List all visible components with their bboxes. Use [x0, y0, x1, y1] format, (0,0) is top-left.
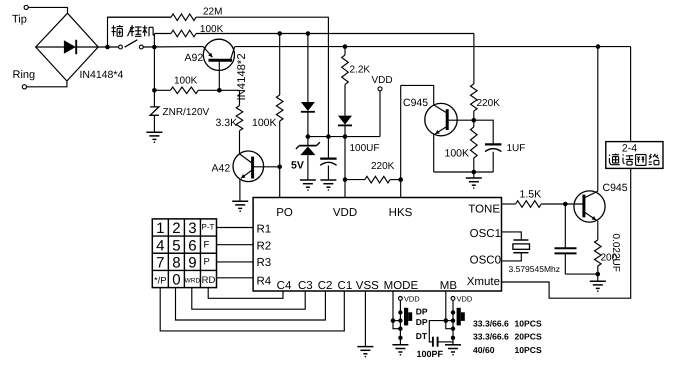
- svg-text:8: 8: [172, 254, 180, 271]
- MODE DIP switch: [391, 291, 421, 356]
- pin label VSS: [356, 280, 379, 292]
- svg-text:2: 2: [172, 220, 180, 237]
- pin label HKS: [389, 207, 413, 219]
- svg-text:1UF: 1UF: [507, 143, 526, 154]
- label DT: [416, 331, 428, 341]
- svg-text:40/60: 40/60: [473, 345, 495, 355]
- svg-text:VDD: VDD: [333, 207, 357, 219]
- diode D1: [301, 102, 315, 112]
- svg-text:HKS: HKS: [389, 207, 413, 219]
- pin label R4: [257, 276, 272, 288]
- resistor 22M: [108, 7, 329, 21]
- wire HKS pin column: [400, 85, 402, 197]
- node emitter rail: [472, 170, 477, 175]
- wire bridge to switch: [98, 46, 118, 48]
- resistor 3.3K: [216, 90, 243, 154]
- svg-text:DP: DP: [416, 317, 428, 327]
- pin label C1: [338, 280, 353, 292]
- node 100K junction a: [277, 31, 282, 36]
- varistor ZNR/120V: [150, 90, 209, 131]
- node HKS tee: [398, 177, 403, 182]
- svg-text:2.2K: 2.2K: [350, 65, 371, 76]
- svg-text:3.579545Mhz: 3.579545Mhz: [509, 264, 561, 274]
- svg-text:R1: R1: [257, 223, 272, 235]
- wire A92 collector to right: [235, 46, 631, 48]
- label DP 1: [416, 307, 428, 317]
- svg-text:OSC1: OSC1: [470, 228, 501, 240]
- terminal Ring: [13, 69, 36, 89]
- svg-text:5: 5: [172, 237, 180, 254]
- wire keypad col2 to C2: [176, 288, 326, 320]
- IC U1 box: [253, 198, 501, 292]
- network box 2-4: [606, 142, 663, 169]
- svg-text:P: P: [203, 257, 209, 268]
- node mid-left: [152, 88, 157, 93]
- wire D1 to node: [307, 112, 309, 137]
- node A92 base: [217, 88, 222, 93]
- ground 100UF: [320, 180, 336, 191]
- zener diode 5V: [291, 137, 320, 180]
- svg-text:100K: 100K: [252, 117, 277, 129]
- svg-text:7: 7: [156, 254, 164, 271]
- wire keypad col1 to C1: [160, 288, 344, 331]
- wire D2 to node: [344, 125, 346, 136]
- svg-text:Ring: Ring: [13, 69, 36, 81]
- svg-text:OSC0: OSC0: [470, 255, 501, 267]
- svg-text:5V: 5V: [291, 160, 304, 172]
- label DP 2: [416, 317, 428, 327]
- wire diode column: [307, 34, 309, 103]
- resistor 220K right: [471, 84, 501, 120]
- ground VSS: [357, 347, 373, 358]
- svg-text:VDD: VDD: [457, 295, 473, 304]
- svg-text:1.5K: 1.5K: [520, 189, 542, 201]
- keypad labels: [154, 220, 215, 289]
- node VDD-220K tee: [343, 177, 348, 182]
- resistor 1.5K: [502, 189, 566, 208]
- node C945-1 base: [472, 118, 477, 123]
- wire OSC1: [502, 232, 522, 240]
- pin label R2: [257, 240, 272, 252]
- svg-text:ZNR/120V: ZNR/120V: [163, 107, 210, 118]
- svg-text:220K: 220K: [477, 98, 501, 109]
- svg-text:A92: A92: [185, 52, 204, 64]
- svg-text:IN4148*2: IN4148*2: [236, 53, 248, 100]
- pin label OSC0: [470, 255, 501, 267]
- svg-text:1: 1: [156, 220, 164, 237]
- pin label MODE: [384, 280, 419, 292]
- wire keypad col3 to C3: [192, 288, 305, 310]
- wire OSC0: [502, 253, 522, 261]
- svg-text:C945: C945: [403, 97, 428, 109]
- wire R3: [217, 261, 254, 263]
- node switch right: [152, 45, 157, 50]
- label 0.022UF vertical: [610, 234, 621, 272]
- svg-text:C1: C1: [338, 280, 353, 292]
- wire 22M left riser: [108, 17, 172, 47]
- svg-text:RD: RD: [202, 275, 216, 286]
- node bridge output: [105, 45, 110, 50]
- wire base to C945-2: [565, 203, 582, 205]
- transistor A92: [185, 39, 235, 90]
- svg-text:VDD: VDD: [404, 295, 420, 304]
- table row1: [473, 319, 542, 329]
- svg-text:P-T: P-T: [201, 222, 214, 231]
- node tone cap: [563, 202, 568, 207]
- pin label C3: [298, 280, 313, 292]
- pin label VDD: [333, 207, 357, 219]
- svg-text:VDD: VDD: [372, 75, 393, 86]
- label IN4148*2 vertical: [236, 53, 248, 100]
- node 100K junction b: [306, 31, 311, 36]
- capacitor 0.022UF: [555, 204, 598, 274]
- wire left column riser: [153, 34, 155, 91]
- wire Xmute: [502, 168, 631, 298]
- svg-text:C945: C945: [603, 182, 628, 194]
- svg-text:PO: PO: [276, 207, 293, 219]
- pin label MB: [440, 280, 458, 292]
- svg-text:33.3/66.6: 33.3/66.6: [473, 332, 509, 342]
- svg-text:R3: R3: [257, 257, 272, 269]
- svg-text:DT: DT: [416, 331, 428, 341]
- svg-text:C3: C3: [298, 280, 313, 292]
- pin label Xmute: [467, 276, 500, 288]
- wire Tip to bridge: [28, 7, 67, 13]
- svg-text:TONE: TONE: [468, 204, 500, 216]
- svg-text:10PCS: 10PCS: [515, 345, 542, 355]
- transistor A42: [212, 151, 280, 201]
- keypad grid: [152, 219, 216, 288]
- MB DIP switch: [444, 291, 473, 356]
- table row3: [473, 345, 542, 355]
- pin label C4: [277, 280, 292, 292]
- svg-text:3: 3: [188, 220, 196, 237]
- svg-text:33.3/66.6: 33.3/66.6: [473, 319, 509, 329]
- pin label OSC1: [470, 228, 501, 240]
- svg-text:Tip: Tip: [12, 14, 27, 26]
- ground C945-2: [590, 274, 606, 292]
- node A42 base / PO line: [277, 165, 282, 170]
- node 100UF top: [326, 134, 331, 139]
- svg-text:F: F: [203, 239, 209, 250]
- wire PO pin: [279, 167, 281, 198]
- table row2: [473, 332, 542, 342]
- node 2.2K top: [343, 44, 348, 49]
- wire VDD node row: [308, 136, 380, 138]
- transistor C945 first: [403, 97, 474, 172]
- ground A42 emitter: [232, 201, 248, 212]
- hook switch 摘/挂机: [119, 40, 144, 49]
- terminal VDD: [372, 75, 393, 91]
- svg-text:R2: R2: [257, 240, 272, 252]
- wire R2: [217, 244, 254, 246]
- crystal 3.579545Mhz: [509, 240, 561, 274]
- svg-text:C4: C4: [277, 280, 292, 292]
- ground ZNR: [146, 132, 162, 143]
- svg-text:Xmute: Xmute: [467, 276, 500, 288]
- wire C945-1 collector top: [401, 85, 434, 105]
- wire right rail top: [630, 47, 632, 142]
- svg-text:DP: DP: [416, 307, 428, 317]
- wire Ring to bridge: [27, 81, 67, 87]
- resistor 100K top: [154, 24, 223, 37]
- svg-text:100K: 100K: [445, 148, 470, 160]
- svg-text:WRD: WRD: [185, 278, 201, 285]
- diode D2: [338, 116, 352, 126]
- wire VSS: [364, 291, 366, 346]
- pin label PO: [276, 207, 293, 219]
- svg-text:100UF: 100UF: [350, 143, 380, 154]
- wire R1: [217, 227, 254, 229]
- resistor 220K HKS: [345, 161, 401, 183]
- node diode2 bottom: [343, 134, 348, 139]
- svg-text:100PF: 100PF: [417, 349, 444, 359]
- svg-text:0: 0: [172, 272, 180, 289]
- node right rail branch: [596, 44, 601, 49]
- wire C945-1 emitter to ground rail: [434, 171, 494, 173]
- pin label TONE: [468, 204, 500, 216]
- wire switch to A92 emitter: [143, 46, 203, 48]
- svg-text:R4: R4: [257, 276, 272, 288]
- bridge rectifier diamond: [36, 13, 98, 81]
- wire VDD terminal drop: [379, 91, 381, 137]
- resistor 100K PO column: [252, 34, 283, 167]
- ground zener: [300, 180, 316, 191]
- svg-text:MB: MB: [440, 280, 458, 292]
- wire keypad col4 to C4: [208, 288, 283, 299]
- capacitor 1UF: [474, 120, 526, 172]
- node zener top: [306, 134, 311, 139]
- wire top rail to 220K corner: [196, 33, 474, 35]
- svg-text:6: 6: [188, 237, 196, 254]
- resistor 100K mid: [154, 76, 239, 94]
- svg-text:VSS: VSS: [356, 280, 379, 292]
- terminal Tip: [12, 5, 28, 25]
- svg-text:A42: A42: [212, 163, 231, 175]
- svg-text:220K: 220K: [371, 161, 395, 172]
- svg-text:C2: C2: [318, 280, 333, 292]
- pin label C2: [318, 280, 333, 292]
- svg-text:9: 9: [188, 254, 196, 271]
- svg-text:*/P: */P: [154, 275, 167, 286]
- bridge diode IN4148*4: [36, 40, 124, 81]
- svg-text:MODE: MODE: [384, 280, 419, 292]
- resistor 200: [595, 240, 618, 274]
- svg-text:4: 4: [156, 237, 164, 254]
- pin label R3: [257, 257, 272, 269]
- wire VDD pin column: [344, 137, 346, 198]
- svg-text:100K: 100K: [174, 76, 198, 87]
- wire 220K riser: [473, 34, 475, 85]
- svg-text:22M: 22M: [203, 7, 222, 18]
- wire 22M down to VDD node: [327, 17, 329, 136]
- svg-text:0.022UF: 0.022UF: [610, 234, 621, 272]
- svg-text:20PCS: 20PCS: [515, 332, 542, 342]
- transistor C945 second: [574, 182, 628, 240]
- node emitter bottom: [596, 272, 601, 277]
- svg-text:10PCS: 10PCS: [515, 319, 542, 329]
- resistor 100K right: [445, 120, 478, 172]
- capacitor 100PF: [417, 321, 454, 359]
- pin label R1: [257, 223, 272, 235]
- resistor 2.2K: [342, 47, 371, 116]
- ground C945-1: [466, 172, 482, 189]
- svg-text:3.3K: 3.3K: [216, 117, 238, 129]
- capacitor 100UF: [320, 137, 379, 180]
- wire R4: [217, 277, 254, 279]
- svg-text:IN4148*4: IN4148*4: [80, 69, 124, 81]
- label 摘/挂机 (drawn strokes): [112, 25, 155, 36]
- wire C945-2 collector riser: [597, 47, 599, 192]
- svg-text:2-4: 2-4: [622, 143, 637, 155]
